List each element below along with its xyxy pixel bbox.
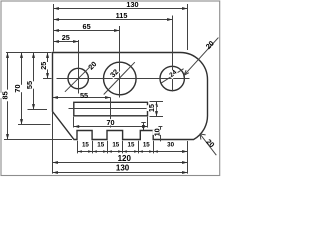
- svg-text:55: 55: [80, 91, 88, 100]
- dimension 10 label: [153, 130, 162, 135]
- dimension 25 label: [38, 62, 48, 69]
- tooth tick arrows at 153.5: [154, 150, 158, 153]
- svg-text:70: 70: [106, 118, 114, 127]
- dimension 70 slot width line: [74, 126, 148, 128]
- bottom-left extension line: [52, 112, 54, 174]
- dimension 120 line: [53, 162, 188, 164]
- dimension 15 label: [147, 105, 157, 111]
- svg-text:115: 115: [116, 11, 128, 20]
- top-right corner radius leader: [184, 38, 218, 76]
- tooth extension at 153.5: [153, 141, 155, 154]
- bottom-right corner radius leader: [200, 134, 216, 155]
- tooth tick arrows at 107.9: [108, 150, 112, 153]
- width dims left extension line: [53, 4, 55, 52]
- dimension 25 line: [54, 41, 79, 43]
- circle3 diameter label 24: [168, 69, 179, 79]
- hole circle diameter 32: [104, 62, 137, 95]
- 30-dim right arrow: [182, 150, 187, 153]
- dimension 55 label: [24, 81, 35, 88]
- dimension 130 bottom line: [53, 172, 188, 174]
- svg-text:15: 15: [112, 141, 119, 148]
- svg-text:130: 130: [126, 0, 138, 9]
- tooth tick arrows at 77.2: [78, 150, 82, 153]
- dimension 85 vertical line lower: [7, 101, 9, 139]
- tooth tick arrows at 138.2: [139, 150, 143, 153]
- svg-text:15: 15: [147, 104, 156, 112]
- circle2 diameter label 32: [108, 67, 120, 79]
- svg-text:65: 65: [83, 22, 91, 31]
- dimension 15 slot height line: [156, 102, 158, 116]
- slot 15-dim top extension: [150, 101, 164, 103]
- notch 10-dim lower segment: [160, 127, 162, 141]
- tooth extension at 107.9: [107, 141, 109, 154]
- dimension 55 slot position line: [53, 97, 111, 99]
- dimension 70 label: [12, 85, 23, 92]
- svg-text:15: 15: [143, 141, 150, 148]
- plate outline with rounded right corners, chamfered bottom-left, castellated bottom edge: [53, 52, 208, 139]
- left dims top extension line: [6, 52, 52, 54]
- dimension 55 vertical line: [33, 53, 35, 109]
- svg-text:15: 15: [97, 141, 104, 148]
- svg-text:120: 120: [118, 154, 132, 163]
- svg-text:15: 15: [128, 141, 135, 148]
- svg-text:25: 25: [62, 33, 70, 42]
- svg-text:10: 10: [153, 128, 162, 136]
- slot horizontal centerline: [69, 108, 152, 110]
- dimension 25 vertical line: [47, 53, 49, 79]
- 70 dim bottom extension: [18, 124, 51, 126]
- 85 dim bottom extension / bottom edge ext: [4, 139, 72, 141]
- main horizontal centerline through holes: [57, 78, 190, 80]
- svg-text:130: 130: [116, 164, 130, 173]
- notch 10-dim upper T-bar: [141, 122, 146, 124]
- tooth tick arrows at 92.6: [93, 150, 97, 153]
- svg-text:25: 25: [39, 62, 48, 70]
- dimension 85 vertical line upper: [7, 53, 9, 90]
- circle2 vertical centerline + ext to 65 dim: [119, 26, 121, 98]
- dimension 70 label: [106, 119, 114, 125]
- diameter line circle2: [104, 62, 135, 94]
- dimension 115 line: [54, 19, 173, 21]
- bottom-right extension line: [187, 141, 189, 174]
- dimension 70 vertical line: [21, 53, 23, 125]
- slot left ext down: [73, 117, 75, 128]
- dimension 65 line: [54, 30, 120, 32]
- tooth extension at 92.6: [92, 141, 94, 154]
- tooth extension at 138.2: [138, 141, 140, 154]
- diameter line circle1: [65, 67, 90, 92]
- slot right ext down: [147, 117, 149, 128]
- notch 10-dim down arrow: [142, 125, 145, 130]
- circle3 vertical centerline + ext to 115 dim: [172, 16, 174, 92]
- tooth extension at 77.2: [77, 141, 79, 154]
- width dim right extension line (top): [187, 4, 189, 50]
- 55 dim bottom extension: [28, 109, 48, 111]
- dimension 85 label: [0, 93, 10, 98]
- svg-text:85: 85: [0, 91, 9, 99]
- notch 10-dim upper segment: [143, 123, 145, 130]
- centerline extension left of plate / 25-dim tick: [43, 78, 52, 80]
- slot vertical centerline: [110, 98, 112, 128]
- diameter line circle3: [161, 69, 184, 84]
- notch 10-dim lower T-bar: [158, 126, 162, 128]
- dimension 130 line: [54, 8, 188, 10]
- slot rectangle 70x15: [74, 102, 148, 116]
- svg-text:15: 15: [82, 141, 89, 148]
- circle1 vertical centerline + ext to 25 dim: [78, 40, 80, 94]
- hole circle diameter 20: [68, 68, 88, 88]
- slot 15-dim bottom extension: [150, 116, 164, 118]
- svg-text:30: 30: [167, 141, 174, 148]
- tooth extension at 122.8: [122, 141, 124, 154]
- page border frame: [1, 1, 220, 176]
- teeth dimension row line: [77, 151, 187, 153]
- svg-text:70: 70: [13, 84, 22, 92]
- tooth tick arrows at 122.8: [123, 150, 127, 153]
- svg-text:55: 55: [25, 81, 34, 89]
- hole circle diameter 24: [160, 66, 184, 90]
